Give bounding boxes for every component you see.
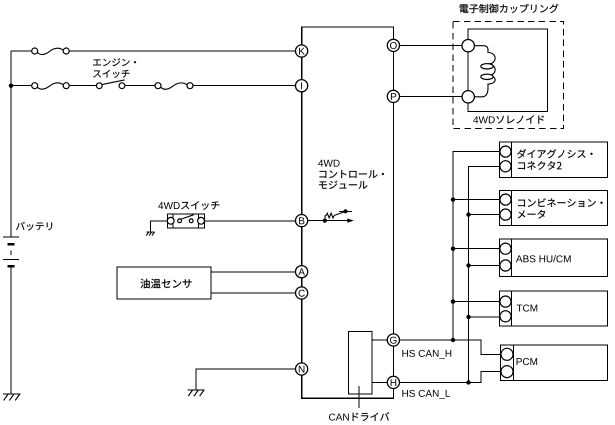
label: モジュール — [319, 181, 367, 189]
label: TCM — [517, 305, 538, 312]
fusible link (pin I circuit, left) — [32, 83, 69, 90]
wire: 4WD switch to pin B — [205, 220, 296, 222]
ground (battery) — [3, 394, 21, 400]
pin G — [387, 334, 399, 346]
4WD switch — [167, 214, 204, 228]
pin H — [387, 376, 399, 388]
wire: CAN_H bus to TCM — [453, 301, 500, 303]
label: コネクタ2 — [518, 161, 561, 170]
label: PCM — [517, 358, 538, 365]
wire: battery feed vertical — [10, 51, 12, 394]
wire: sensor to pin A — [211, 271, 296, 273]
CAN_L bus — [469, 166, 501, 382]
pin I — [296, 80, 308, 92]
label: CANドライバ — [329, 414, 349, 421]
signal arrow (pin B into module) — [325, 220, 348, 222]
label: 4WD (module line 1) — [318, 160, 340, 167]
wire: CAN_L bus to TCM — [469, 316, 501, 318]
engine switch contacts — [96, 80, 125, 89]
4WD control module box — [302, 27, 394, 398]
wire: HS CAN_L (pin H to PCM) — [400, 372, 502, 383]
label: メータ — [518, 210, 546, 219]
pin K — [296, 45, 308, 57]
wire: CAN driver to pin H — [372, 381, 387, 383]
solenoid terminal (pin P side) — [462, 91, 474, 103]
diagnosis connector 2 box — [500, 142, 608, 177]
junction dot (pin B node) — [323, 219, 327, 223]
wire: sensor to pin C — [211, 292, 296, 294]
wire: pin N to ground — [196, 369, 296, 390]
pin O — [387, 39, 399, 51]
wire: CAN_H bus to ABS HU/CM — [453, 248, 500, 250]
oil temperature sensor box — [117, 267, 211, 299]
ground (4WD switch) — [146, 232, 155, 236]
CAN_H bus — [453, 152, 500, 340]
label: 4WDソレノイド — [473, 116, 495, 123]
junction dots CAN_H bus — [451, 197, 455, 342]
label: 電子制御カップリング — [460, 4, 559, 13]
4WD solenoid box — [468, 29, 547, 111]
CAN driver box — [349, 332, 373, 395]
wire: CAN_H bus to combination meter — [453, 199, 500, 201]
fusible link (pin K circuit) — [32, 48, 69, 55]
pull-up resistor zigzag — [324, 216, 326, 221]
PCM box — [500, 345, 607, 381]
label: 油温センサ — [140, 279, 191, 289]
wire: pin B to internal node — [308, 220, 325, 222]
wire: to pin I — [11, 85, 296, 87]
pin B — [296, 215, 308, 227]
wire: pin P to solenoid — [400, 95, 463, 97]
label: HS CAN_H — [402, 350, 451, 359]
label: ABS HU/CM — [516, 255, 571, 262]
label: ダイアグノシス・ — [517, 149, 592, 158]
pin C — [296, 287, 308, 299]
electronic control coupling (dashed enclosure) — [453, 22, 563, 129]
combination meter box — [500, 190, 608, 225]
wire: pin O to solenoid — [400, 44, 463, 46]
junction: battery feed / pin I wire — [9, 84, 13, 88]
internal supply tap bar — [339, 210, 352, 212]
label: バッテリ — [16, 222, 52, 231]
label: コンビネーション・ — [518, 198, 602, 207]
solenoid coil — [474, 46, 495, 97]
junction dots CAN_L bus — [466, 212, 470, 384]
ABS HU/CM box — [500, 239, 608, 277]
battery BT — [3, 237, 19, 267]
TCM box — [500, 291, 608, 326]
label: エンジン・ — [93, 58, 136, 66]
wire: CAN_L bus to combination meter — [469, 214, 501, 216]
solenoid terminal (pin O side) — [462, 40, 474, 52]
pin N — [296, 363, 308, 375]
wire: to pin K — [11, 50, 296, 52]
fusible link (pin I circuit, right) — [155, 83, 193, 90]
wire: CAN driver to pin G — [372, 339, 387, 341]
label: 4WDスイッチ — [158, 202, 180, 209]
label: HS CAN_L — [402, 390, 450, 399]
leader line (CAN driver label) — [358, 386, 360, 408]
wire: HS CAN_H (pin G to PCM) — [400, 340, 502, 354]
label: スイッチ (engine switch) — [93, 70, 129, 78]
wire: CAN_L bus to ABS HU/CM — [469, 265, 501, 267]
pin A — [296, 266, 308, 278]
ground (module, pin N) — [188, 390, 205, 396]
wire: 4WD switch to ground — [150, 221, 167, 232]
label: コントロール・ — [319, 170, 383, 178]
pin P — [387, 90, 399, 102]
